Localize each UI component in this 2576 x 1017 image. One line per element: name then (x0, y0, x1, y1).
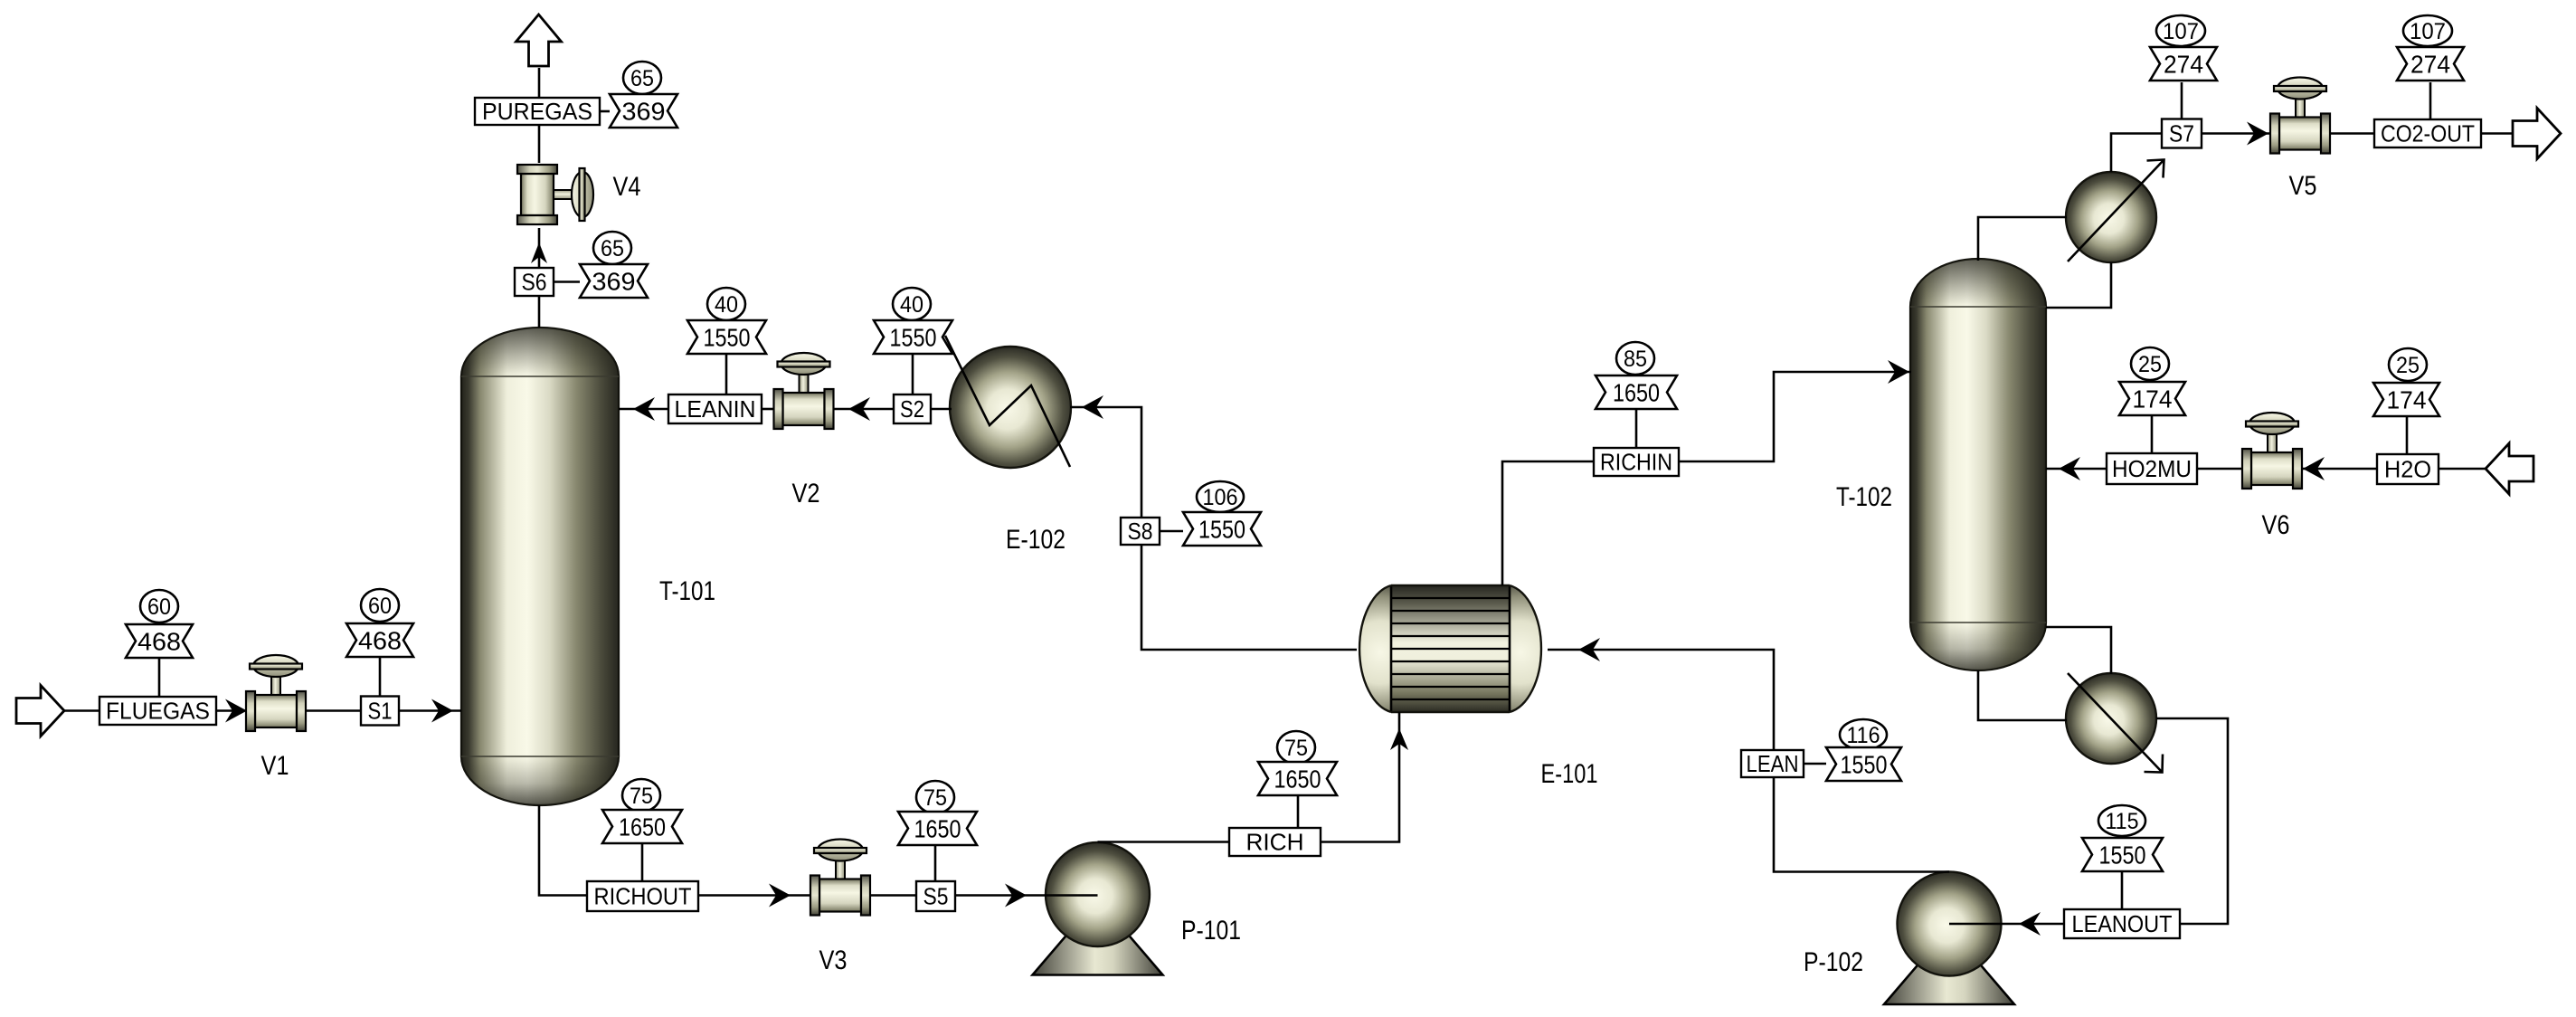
pump P-102 (1884, 872, 2014, 1005)
flag connector LEANIN (725, 353, 728, 394)
svg-text:75: 75 (630, 784, 653, 809)
svg-text:S1: S1 (368, 698, 393, 725)
svg-text:85: 85 (1624, 347, 1647, 372)
arrow into E-101 hot side (1578, 638, 1600, 661)
wire S8 to E-101 (1141, 545, 1357, 650)
arrow into V1 (225, 699, 247, 723)
wire T-102 bottoms to reboiler (1978, 670, 2067, 720)
wire condenser reflux to T-102 (2046, 262, 2111, 308)
wire LEANIN to V2 (762, 408, 773, 411)
arrow into T-102 ho2mu (2059, 457, 2080, 480)
flag 85/1650 RICHIN (1596, 342, 1677, 409)
svg-text:107: 107 (2163, 19, 2199, 44)
svg-text:369: 369 (622, 98, 666, 126)
svg-text:468: 468 (137, 628, 181, 656)
condenser diagonal arrow (2068, 160, 2164, 261)
flag 60/468 S1 (346, 589, 413, 657)
stream box S2 (894, 394, 931, 423)
stream box H2O (2377, 454, 2439, 484)
condenser circle (2066, 172, 2156, 262)
valve V1 (246, 655, 306, 731)
wire T-102 to HO2MU (2046, 468, 2107, 470)
flag connector PUREGAS (600, 110, 610, 113)
svg-text:274: 274 (2410, 51, 2450, 79)
svg-text:S8: S8 (1128, 518, 1153, 545)
stream box RICHOUT (587, 881, 698, 911)
svg-text:60: 60 (368, 594, 392, 619)
svg-text:CO2-OUT: CO2-OUT (2381, 120, 2475, 147)
arrow into V3 (769, 884, 791, 908)
svg-text:S7: S7 (2169, 120, 2194, 147)
svg-text:LEANIN: LEANIN (675, 395, 756, 423)
svg-text:106: 106 (1203, 485, 1238, 510)
flag connector LEANOUT (2121, 872, 2124, 909)
wire H2O to inlet (2439, 468, 2486, 470)
wire T-101 top to S6 (538, 296, 541, 328)
flag connector S2 (912, 354, 914, 394)
wire PUREGAS to outlet (538, 68, 541, 98)
svg-text:369: 369 (592, 268, 636, 296)
wire T-102 to reboiler top (2046, 627, 2111, 674)
flag 75/1650 S5 (898, 781, 977, 845)
wire T-102 top to condenser (1978, 217, 2067, 261)
svg-text:HO2MU: HO2MU (2112, 455, 2192, 482)
svg-text:115: 115 (2106, 809, 2139, 834)
svg-text:H2O: H2O (2384, 456, 2431, 483)
wire LEANIN into T-101 (619, 408, 668, 411)
svg-text:1550: 1550 (1198, 516, 1245, 544)
svg-text:65: 65 (601, 236, 624, 261)
svg-text:174: 174 (2387, 386, 2427, 414)
stream box CO2-OUT (2374, 119, 2481, 147)
svg-text:V6: V6 (2262, 510, 2290, 540)
wire condenser to S7 (2111, 134, 2162, 173)
svg-text:V2: V2 (792, 479, 820, 508)
svg-text:RICHIN: RICHIN (1600, 449, 1672, 476)
pump P-101 (1033, 842, 1163, 975)
flag connector LEAN (1804, 763, 1826, 765)
svg-text:274: 274 (2164, 51, 2203, 79)
wire HO2MU to V6 (2197, 468, 2242, 470)
flag 40/1550 LEANIN (687, 288, 766, 354)
stream box S7 (2162, 119, 2202, 148)
svg-text:E-101: E-101 (1541, 759, 1598, 789)
flag connector RICHOUT (641, 842, 644, 881)
arrow into T-101 feed (431, 699, 453, 723)
flag connector H2O (2406, 417, 2409, 454)
arrow into T-101 leanin (633, 397, 655, 421)
svg-text:1550: 1550 (2099, 841, 2146, 870)
svg-text:S6: S6 (522, 269, 547, 296)
svg-text:40: 40 (715, 292, 738, 318)
valve V2 (774, 353, 834, 429)
wire P-101 to RICH to E-101 (1098, 841, 1230, 843)
svg-text:1550: 1550 (890, 324, 937, 352)
svg-text:V1: V1 (261, 751, 289, 781)
flag 40/1550 S2 (874, 288, 952, 354)
stream box LEANIN (668, 394, 762, 423)
wire V3 to S5 (870, 894, 916, 897)
absorber column T-101 (461, 328, 619, 805)
outlet arrow PUREGAS (516, 14, 562, 66)
wire RICHIN to T-102 (1679, 372, 1911, 461)
svg-text:FLUEGAS: FLUEGAS (106, 698, 210, 725)
svg-text:25: 25 (2396, 353, 2420, 378)
wire V6 to H2O (2302, 468, 2377, 470)
svg-text:P-101: P-101 (1181, 916, 1241, 946)
svg-text:LEAN: LEAN (1747, 750, 1799, 777)
heater E-102 (950, 347, 1071, 468)
svg-text:S5: S5 (923, 883, 949, 910)
flag 115/1550 LEANOUT (2082, 805, 2163, 871)
svg-text:1650: 1650 (1274, 765, 1321, 794)
svg-text:LEANOUT: LEANOUT (2072, 910, 2173, 937)
wire S6 to V4 (538, 228, 541, 269)
stripper column T-102 (1910, 259, 2046, 670)
svg-text:107: 107 (2410, 19, 2446, 44)
arrow into V2 (848, 397, 870, 421)
flag 25/174 HO2MU (2119, 347, 2185, 415)
wire V1 to S1 (306, 709, 361, 712)
svg-text:468: 468 (358, 627, 402, 655)
wire S7 to V5 (2202, 132, 2271, 135)
stream box HO2MU (2107, 453, 2197, 484)
wire S1 to T-101 (399, 709, 461, 712)
svg-text:V4: V4 (613, 172, 641, 202)
arrow into P-101 (1005, 884, 1027, 908)
svg-text:1650: 1650 (1613, 379, 1660, 407)
stream box S8 (1121, 518, 1160, 545)
flag connector S6 (554, 280, 580, 283)
svg-text:T-101: T-101 (659, 576, 715, 606)
arrow into T-102 richin (1888, 360, 1909, 384)
flag 65/369 S6 (580, 232, 648, 298)
valve V4 (517, 165, 593, 224)
svg-text:60: 60 (147, 594, 171, 620)
svg-text:40: 40 (900, 292, 923, 318)
svg-text:P-102: P-102 (1804, 947, 1863, 977)
flag connector CO2-OUT (2429, 82, 2432, 119)
heat exchanger E-101 (1359, 585, 1541, 712)
wire S5 to P-101 (955, 894, 1098, 897)
arrow into V5 (2247, 122, 2268, 146)
flag 25/174 H2O (2373, 348, 2439, 416)
arrow into V6 (2303, 457, 2325, 480)
arrow up into V4 (531, 242, 547, 263)
wire CO2-OUT to outlet (2481, 132, 2514, 135)
stream box S1 (361, 697, 399, 726)
arrow up into E-101 cold side (1390, 728, 1408, 750)
stream box RICHIN (1594, 448, 1679, 476)
stream box S5 (916, 881, 955, 911)
valve V3 (810, 840, 870, 916)
wire E-102 to S8 (1070, 407, 1141, 518)
svg-text:PUREGAS: PUREGAS (482, 98, 592, 125)
svg-text:S2: S2 (900, 395, 924, 423)
flag 65/369 PUREGAS (610, 62, 677, 128)
stream box FLUEGAS (99, 697, 216, 725)
stream box S6 (515, 268, 554, 296)
valve V6 (2242, 413, 2302, 489)
flag 116/1550 LEAN (1826, 719, 1901, 781)
svg-text:75: 75 (1284, 736, 1308, 761)
svg-text:75: 75 (923, 785, 947, 811)
wire V4 to PUREGAS (538, 125, 541, 163)
inlet arrow H2O (2486, 443, 2533, 494)
svg-text:RICHOUT: RICHOUT (594, 883, 692, 910)
flag 75/1650 RICHOUT (602, 779, 682, 843)
flag 107/274 S7 (2150, 15, 2217, 81)
stream box PUREGAS (475, 98, 600, 125)
svg-text:116: 116 (1847, 723, 1880, 748)
arrow into E-102 (1082, 395, 1103, 419)
wire S2 to E-102 (931, 408, 952, 411)
svg-text:RICH: RICH (1246, 829, 1304, 856)
flag connector S1 (379, 657, 382, 697)
svg-text:65: 65 (630, 66, 654, 91)
flag 106/1550 S8 (1183, 481, 1261, 546)
flag connector S5 (934, 844, 937, 881)
svg-text:1650: 1650 (619, 813, 666, 841)
svg-text:V3: V3 (819, 946, 848, 975)
wire V5 to CO2-OUT (2330, 132, 2374, 135)
flag 107/274 CO2-OUT (2397, 15, 2464, 81)
svg-text:174: 174 (2133, 385, 2173, 413)
wire E-101 top to RICHIN (1502, 461, 1594, 585)
outlet arrow CO2-OUT (2513, 109, 2561, 159)
reboiler diagonal arrow (2068, 673, 2162, 772)
wire FLUEGAS to V1 (216, 709, 248, 712)
valve V5 (2270, 78, 2330, 154)
svg-text:V5: V5 (2289, 171, 2317, 201)
svg-text:25: 25 (2138, 352, 2162, 377)
wire RICHOUT to V3 (698, 894, 810, 897)
wire LEANOUT to P-102 (1949, 923, 2064, 926)
wire reboiler to LEANOUT (2156, 718, 2228, 924)
wire T-101 bottoms to RICHOUT (539, 805, 587, 896)
wire inlet to FLUEGAS (64, 709, 99, 712)
flag 75/1650 RICH (1258, 731, 1337, 795)
svg-text:1550: 1550 (704, 324, 751, 352)
arrow into P-102 (2019, 912, 2041, 936)
flag connector HO2MU (2151, 416, 2154, 453)
stream box LEAN (1741, 750, 1804, 777)
wire RICH to E-101 riser (1321, 712, 1399, 842)
flag 60/468 FLUEGAS (126, 590, 193, 658)
flag connector S7 (2181, 82, 2183, 119)
wire P-102 to LEAN to E-101 (1548, 650, 1949, 872)
reboiler circle (2066, 673, 2156, 764)
inlet arrow FLUEGAS (16, 686, 64, 737)
flag connector FLUEGAS (158, 658, 161, 697)
svg-text:E-102: E-102 (1006, 525, 1065, 555)
flag connector RICHIN (1635, 409, 1638, 448)
svg-text:T-102: T-102 (1836, 482, 1892, 512)
stream box LEANOUT (2064, 909, 2180, 938)
svg-text:1650: 1650 (914, 815, 961, 843)
zigzag through E-102 (945, 336, 1070, 467)
wire V2 to S2 (834, 408, 894, 411)
svg-text:1550: 1550 (1841, 751, 1888, 779)
stream box RICH (1229, 828, 1321, 856)
flag connector RICH (1297, 794, 1300, 828)
flag connector S8 (1160, 530, 1183, 533)
